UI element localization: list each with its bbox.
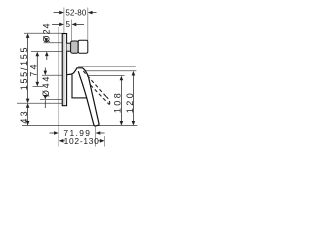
svg-text:43: 43 <box>19 109 29 123</box>
reference line R4 hub top <box>42 74 62 76</box>
extension line E3 (knob front, 52-80 dim) <box>87 8 89 41</box>
dimension 102-130 <box>59 139 64 143</box>
dimension 74 <box>36 56 38 83</box>
reference line R2 knob top <box>44 42 67 44</box>
reference line R3 knob bottom <box>31 50 67 52</box>
dimension 120 <box>132 75 134 122</box>
reference line R6 hub bottom <box>40 99 62 101</box>
lever handle left edge <box>78 71 94 126</box>
dashed handle position A <box>83 71 106 97</box>
lever handle right edge <box>89 77 100 124</box>
extension line E2 (knob ring, 5 dim) <box>71 20 73 41</box>
reference line R8b dashed-handle top <box>83 70 136 72</box>
svg-text:74: 74 <box>29 62 39 76</box>
lever handle tip <box>94 125 99 126</box>
extension line E5 (handle tip, 71-99 dim) <box>95 126 97 147</box>
wall line <box>58 27 60 147</box>
reference line R5 74 bottom <box>33 86 44 88</box>
svg-text:120: 120 <box>125 91 135 113</box>
reference line R7 plate bottom <box>17 102 62 104</box>
dimension 71-99 <box>50 132 55 134</box>
dashed handle position B <box>91 85 110 105</box>
extension line E6 (102-130 dim right) <box>104 136 106 147</box>
lever underside <box>71 97 87 99</box>
svg-text:102-130: 102-130 <box>64 136 100 146</box>
dashed handle tip <box>106 97 110 105</box>
lever stem edge <box>71 74 73 98</box>
svg-text:5: 5 <box>66 20 71 29</box>
svg-text:155/155: 155/155 <box>19 46 29 90</box>
svg-text:Ø44: Ø44 <box>41 75 51 97</box>
reference line R9 handle shoulder <box>88 75 124 77</box>
lever white fill <box>67 68 100 126</box>
dimension 52-80 <box>54 12 97 14</box>
knob body <box>78 40 88 53</box>
reference line R1 plate top <box>24 32 62 34</box>
reference line R8 lever top <box>78 66 136 68</box>
dimension Ø44 <box>44 68 46 72</box>
dimension 108 <box>120 80 122 122</box>
dimension 5 <box>52 23 84 25</box>
extension line E1 (plate front, top dims) <box>63 8 65 34</box>
svg-text:52-80: 52-80 <box>65 9 86 18</box>
knob ring <box>71 41 79 53</box>
lever top curve <box>67 68 89 78</box>
knob neck <box>67 43 71 51</box>
dimension 43 <box>27 107 29 122</box>
svg-text:108: 108 <box>112 91 122 113</box>
dimension 155/155 <box>27 37 29 99</box>
reference line R10 bottom <box>22 125 137 127</box>
